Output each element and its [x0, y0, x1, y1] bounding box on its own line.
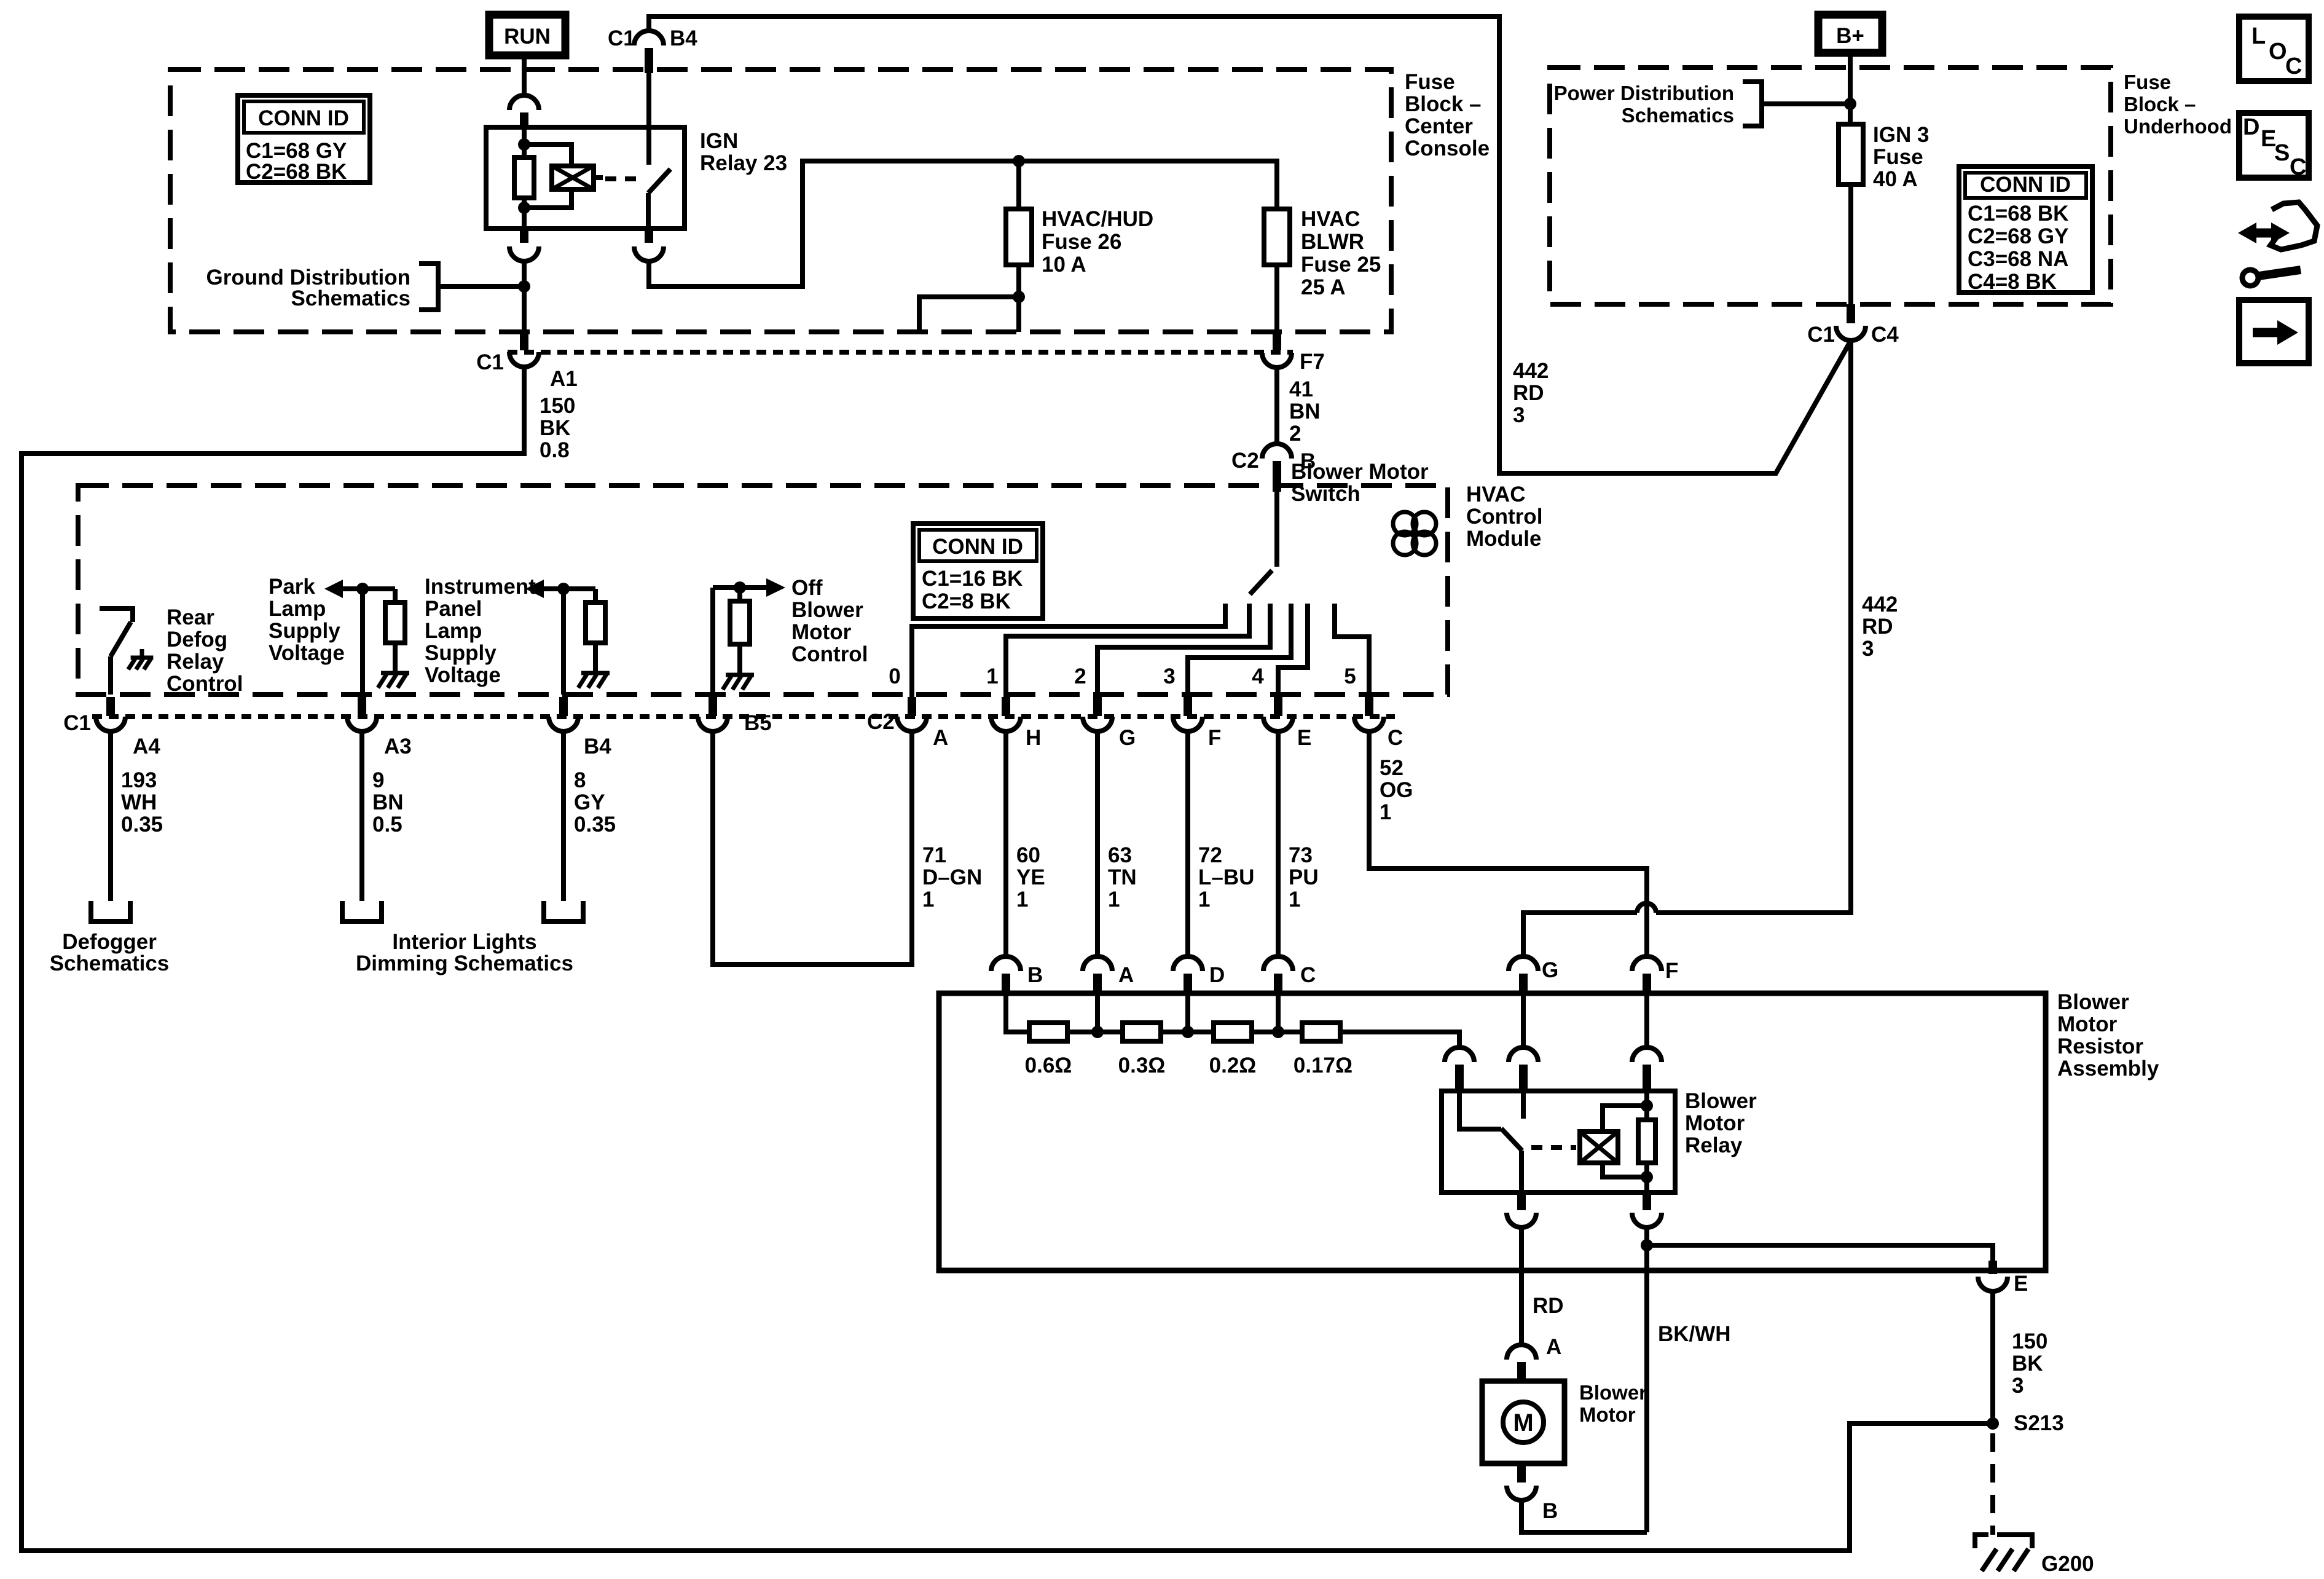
svg-text:Lamp: Lamp [425, 619, 482, 643]
svg-text:52: 52 [1380, 756, 1403, 780]
svg-text:RD: RD [1513, 381, 1544, 405]
svg-text:Assembly: Assembly [2057, 1057, 2159, 1081]
svg-text:0.8: 0.8 [540, 438, 570, 462]
svg-text:0.35: 0.35 [574, 813, 616, 837]
svg-text:Fuse: Fuse [1405, 70, 1455, 94]
svg-text:Schematics: Schematics [1622, 104, 1734, 127]
svg-text:A: A [1546, 1335, 1561, 1359]
svg-text:C4: C4 [1871, 323, 1899, 347]
svg-text:0: 0 [889, 664, 900, 688]
svg-text:0.5: 0.5 [372, 813, 402, 837]
svg-text:Blower: Blower [791, 598, 863, 622]
svg-text:BK: BK [2012, 1352, 2043, 1376]
svg-text:25 A: 25 A [1301, 275, 1346, 299]
svg-text:0.3Ω: 0.3Ω [1118, 1053, 1166, 1077]
svg-text:3: 3 [1513, 403, 1525, 427]
svg-text:2: 2 [1289, 422, 1301, 446]
svg-text:Schematics: Schematics [50, 951, 170, 975]
svg-text:HVAC/HUD: HVAC/HUD [1042, 207, 1153, 231]
svg-text:Off: Off [791, 576, 823, 600]
svg-text:Blower: Blower [2057, 990, 2129, 1014]
svg-text:10 A: 10 A [1042, 253, 1086, 277]
svg-text:BLWR: BLWR [1301, 230, 1364, 254]
svg-text:Fuse: Fuse [1873, 145, 1923, 169]
svg-text:Fuse 25: Fuse 25 [1301, 253, 1381, 277]
svg-text:S213: S213 [2014, 1411, 2064, 1435]
svg-text:60: 60 [1016, 843, 1040, 867]
svg-text:Module: Module [1466, 527, 1541, 551]
svg-text:IGN: IGN [700, 129, 738, 153]
svg-text:B4: B4 [584, 734, 611, 758]
svg-text:1: 1 [1289, 888, 1300, 912]
svg-text:C1: C1 [1807, 323, 1835, 347]
svg-text:Schematics: Schematics [291, 286, 410, 310]
svg-text:C3=68 NA: C3=68 NA [1968, 247, 2068, 271]
svg-text:HVAC: HVAC [1466, 482, 1526, 506]
svg-text:Motor: Motor [1579, 1403, 1636, 1426]
svg-text:Console: Console [1405, 136, 1490, 160]
svg-text:C1=16 BK: C1=16 BK [922, 567, 1023, 591]
svg-text:C2=8 BK: C2=8 BK [922, 589, 1011, 613]
svg-text:Voltage: Voltage [269, 641, 345, 665]
svg-text:IGN 3: IGN 3 [1873, 123, 1929, 147]
svg-text:WH: WH [121, 790, 157, 814]
svg-text:2: 2 [1074, 664, 1086, 688]
svg-text:RUN: RUN [504, 25, 551, 49]
svg-text:Defogger: Defogger [62, 930, 157, 954]
svg-text:Power Distribution: Power Distribution [1554, 82, 1734, 104]
svg-text:D: D [1209, 963, 1225, 987]
svg-text:41: 41 [1289, 377, 1313, 401]
svg-text:D–GN: D–GN [922, 865, 982, 889]
svg-text:F: F [1665, 959, 1678, 983]
svg-text:1: 1 [1108, 888, 1120, 912]
svg-text:RD: RD [1862, 615, 1893, 639]
svg-text:193: 193 [121, 768, 157, 792]
svg-text:C4=8 BK: C4=8 BK [1968, 270, 2057, 294]
svg-text:CONN ID: CONN ID [1980, 173, 2071, 197]
svg-text:Blower: Blower [1685, 1089, 1757, 1113]
svg-text:40 A: 40 A [1873, 167, 1918, 191]
svg-text:Fuse: Fuse [2124, 71, 2171, 93]
svg-text:H: H [1026, 726, 1041, 750]
svg-text:G200: G200 [2041, 1552, 2094, 1576]
svg-text:5: 5 [1344, 664, 1356, 688]
svg-text:C2: C2 [1231, 449, 1259, 473]
svg-text:G: G [1119, 726, 1136, 750]
svg-text:3: 3 [1163, 664, 1175, 688]
svg-text:CONN ID: CONN ID [932, 535, 1023, 559]
svg-text:Fuse 26: Fuse 26 [1042, 230, 1121, 254]
svg-text:8: 8 [574, 768, 586, 792]
svg-text:OG: OG [1380, 778, 1413, 802]
svg-text:1: 1 [1380, 800, 1391, 824]
svg-text:Motor: Motor [791, 620, 852, 644]
svg-text:D: D [2243, 114, 2259, 140]
svg-text:Lamp: Lamp [269, 597, 326, 621]
svg-text:Supply: Supply [269, 619, 340, 643]
svg-text:Motor: Motor [2057, 1012, 2118, 1036]
svg-text:Blower Motor: Blower Motor [1291, 460, 1429, 484]
svg-text:Motor: Motor [1685, 1111, 1745, 1135]
svg-text:Block –: Block – [1405, 92, 1482, 116]
svg-text:Defog: Defog [167, 628, 227, 652]
svg-text:Interior Lights: Interior Lights [392, 930, 536, 954]
svg-text:E: E [2014, 1272, 2028, 1296]
svg-text:73: 73 [1289, 843, 1313, 867]
svg-text:C2: C2 [867, 710, 895, 734]
svg-text:3: 3 [1862, 637, 1874, 661]
svg-text:YE: YE [1016, 865, 1045, 889]
svg-text:CONN ID: CONN ID [258, 106, 349, 130]
svg-text:Underhood: Underhood [2124, 115, 2232, 138]
svg-text:S: S [2274, 140, 2290, 166]
svg-text:G: G [1542, 958, 1558, 982]
svg-text:150: 150 [540, 394, 575, 418]
svg-text:Control: Control [167, 672, 243, 696]
svg-text:RD: RD [1533, 1294, 1564, 1318]
svg-text:BN: BN [1289, 400, 1321, 423]
svg-text:Control: Control [791, 642, 868, 666]
svg-text:1: 1 [1198, 888, 1210, 912]
svg-text:Resistor: Resistor [2057, 1034, 2143, 1058]
svg-text:Relay: Relay [167, 650, 224, 674]
svg-text:Supply: Supply [425, 641, 497, 665]
svg-text:442: 442 [1862, 593, 1898, 616]
svg-text:M: M [1513, 1409, 1533, 1436]
svg-text:BK/WH: BK/WH [1658, 1322, 1731, 1346]
svg-text:Control: Control [1466, 505, 1542, 529]
svg-text:C1: C1 [608, 26, 635, 50]
svg-text:A: A [933, 726, 948, 750]
svg-text:PU: PU [1289, 865, 1319, 889]
svg-text:Block –: Block – [2124, 93, 2196, 116]
svg-text:C: C [2290, 154, 2306, 180]
svg-text:C2=68 BK: C2=68 BK [246, 160, 347, 184]
svg-text:63: 63 [1108, 843, 1132, 867]
svg-text:1: 1 [1016, 888, 1028, 912]
svg-text:Switch: Switch [1291, 482, 1360, 506]
svg-text:A4: A4 [133, 734, 160, 758]
svg-text:BN: BN [372, 790, 404, 814]
svg-text:71: 71 [922, 843, 946, 867]
svg-text:C1: C1 [63, 711, 91, 735]
svg-text:Center: Center [1405, 114, 1473, 138]
svg-text:4: 4 [1252, 664, 1264, 688]
svg-text:B5: B5 [744, 711, 772, 735]
svg-text:9: 9 [372, 768, 384, 792]
svg-text:F7: F7 [1300, 350, 1325, 374]
svg-text:0.2Ω: 0.2Ω [1209, 1053, 1257, 1077]
svg-text:A: A [1118, 963, 1134, 987]
svg-text:C1: C1 [476, 350, 504, 374]
svg-text:Relay: Relay [1685, 1133, 1743, 1157]
svg-text:3: 3 [2012, 1374, 2024, 1398]
svg-text:HVAC: HVAC [1301, 207, 1360, 231]
svg-text:0.35: 0.35 [121, 813, 163, 837]
svg-text:C: C [1300, 963, 1316, 987]
svg-text:C: C [1388, 726, 1403, 750]
svg-text:L–BU: L–BU [1198, 865, 1254, 889]
svg-text:Relay 23: Relay 23 [700, 151, 787, 175]
svg-text:0.6Ω: 0.6Ω [1025, 1053, 1072, 1077]
svg-text:E: E [1297, 726, 1311, 750]
svg-text:Dimming Schematics: Dimming Schematics [356, 951, 573, 975]
svg-text:TN: TN [1108, 865, 1137, 889]
svg-text:B: B [1542, 1499, 1558, 1523]
svg-text:C1=68 BK: C1=68 BK [1968, 202, 2068, 226]
svg-text:0.17Ω: 0.17Ω [1294, 1053, 1352, 1077]
svg-text:Rear: Rear [167, 605, 214, 629]
svg-text:442: 442 [1513, 359, 1549, 383]
svg-text:BK: BK [540, 416, 571, 440]
svg-text:Blower: Blower [1579, 1381, 1647, 1404]
svg-text:72: 72 [1198, 843, 1222, 867]
svg-text:A3: A3 [384, 734, 412, 758]
svg-text:A1: A1 [550, 367, 578, 391]
svg-text:C: C [2285, 53, 2302, 79]
svg-text:B+: B+ [1836, 24, 1864, 48]
svg-text:Voltage: Voltage [425, 663, 501, 687]
svg-text:150: 150 [2012, 1329, 2047, 1353]
svg-text:1: 1 [986, 664, 998, 688]
svg-text:F: F [1208, 726, 1221, 750]
svg-text:L: L [2251, 23, 2266, 49]
svg-text:C2=68 GY: C2=68 GY [1968, 224, 2068, 248]
svg-text:1: 1 [922, 888, 934, 912]
svg-text:Panel: Panel [425, 597, 482, 621]
svg-text:B: B [1027, 963, 1043, 987]
svg-text:O: O [2269, 39, 2287, 65]
svg-text:GY: GY [574, 790, 605, 814]
svg-text:B4: B4 [670, 26, 697, 50]
svg-text:Instrument: Instrument [425, 575, 536, 599]
svg-text:Park: Park [269, 575, 315, 599]
